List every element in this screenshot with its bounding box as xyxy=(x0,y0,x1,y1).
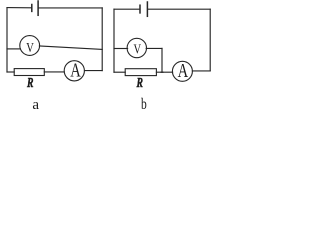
wire: circuit a resistor to ammeter xyxy=(44,71,64,73)
wire: circuit b top-right segment (battery positive lead) xyxy=(148,8,210,10)
svg-text:R: R xyxy=(136,75,143,90)
wire: circuit b voltmeter branch left xyxy=(114,48,128,50)
wire: circuit b ammeter to right side xyxy=(192,70,210,72)
wire: circuit b top-left segment (battery negative lead) xyxy=(114,8,139,10)
svg-text:b: b xyxy=(141,96,147,113)
svg-text:V: V xyxy=(26,40,34,56)
resistor R (circuit a) rectangle body xyxy=(14,69,44,76)
wire: circuit a top-left segment (battery negative lead) xyxy=(7,7,31,9)
wire: circuit b voltmeter branch right horizontal to drop point xyxy=(146,47,162,49)
wire: circuit a voltmeter branch left xyxy=(7,48,20,50)
wire: circuit a right vertical side xyxy=(101,8,103,71)
battery cell BT (circuit a) short plate (negative) xyxy=(31,5,33,12)
wire: circuit a voltmeter branch right (slightly sloped) xyxy=(39,46,102,50)
wire: circuit b resistor to ammeter (through junction node) xyxy=(156,71,172,73)
wire: circuit a top-right segment (battery positive lead) xyxy=(39,7,102,9)
svg-text:R: R xyxy=(26,75,33,90)
resistor R (circuit b) rectangle body xyxy=(125,69,156,76)
svg-text:V: V xyxy=(134,41,142,57)
ammeter U-A (circuit b) circle xyxy=(172,61,192,81)
svg-text:A: A xyxy=(70,59,81,80)
wire: circuit b bottom-left segment to resistor xyxy=(114,71,125,73)
wire: circuit b voltmeter branch vertical drop to node between R and A xyxy=(161,48,163,72)
voltmeter U-V (circuit a) circle xyxy=(20,36,40,56)
ammeter U-A (circuit a) circle xyxy=(64,61,84,81)
node: junction of voltmeter drop with bottom wire (circuit b) xyxy=(161,71,163,73)
wire: circuit b left vertical side xyxy=(113,9,115,72)
wire: circuit b right vertical side xyxy=(209,9,211,70)
wire: circuit a bottom-left segment to resistor xyxy=(7,71,14,73)
svg-text:a: a xyxy=(32,97,39,113)
battery cell BT (circuit b) short plate (negative) xyxy=(139,5,141,13)
voltmeter U-V (circuit b) circle xyxy=(127,38,146,57)
wire: circuit a left vertical side xyxy=(6,8,8,72)
battery cell BT (circuit a) long plate (positive) xyxy=(37,1,39,15)
battery cell BT (circuit b) long plate (positive) xyxy=(146,2,148,16)
svg-text:A: A xyxy=(178,60,189,81)
wire: circuit a ammeter to right side xyxy=(85,70,103,72)
